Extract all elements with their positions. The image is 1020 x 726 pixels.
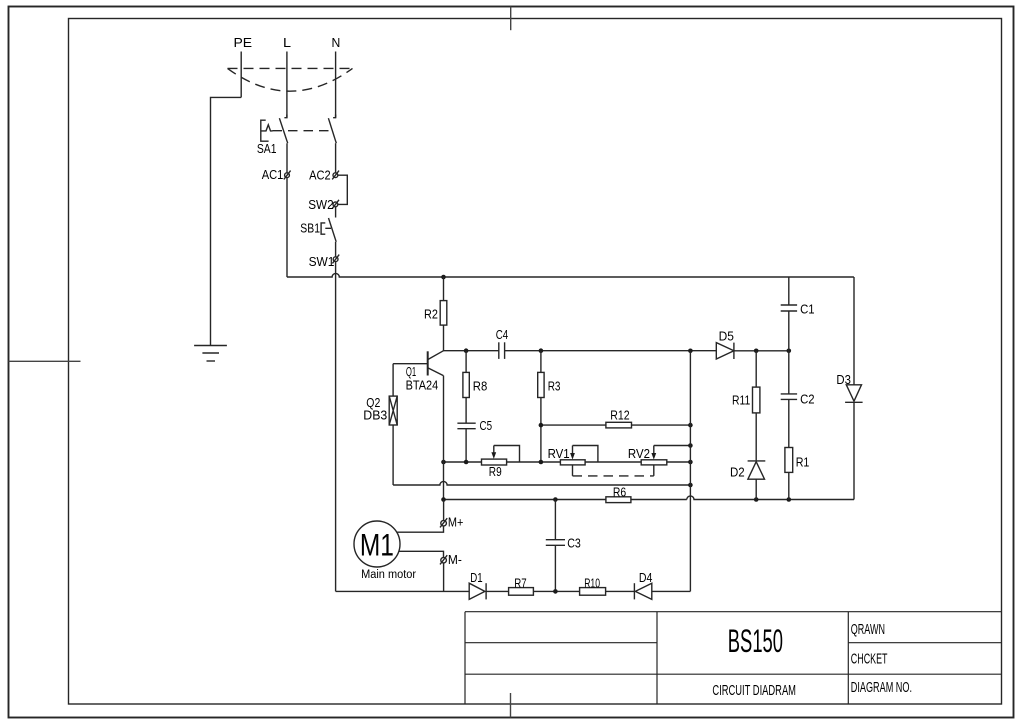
svg-text:SW1: SW1 [309, 254, 335, 269]
svg-text:R2: R2 [424, 307, 438, 322]
svg-text:BS150: BS150 [728, 623, 783, 659]
diode D4 [634, 570, 690, 600]
svg-text:M+: M+ [448, 515, 464, 530]
transistor Q1 [393, 351, 443, 393]
wire SB1 to SW1 [335, 242, 337, 257]
wire R6 row right with hop [687, 496, 854, 500]
svg-text:SW2: SW2 [308, 197, 333, 212]
node rail-R2 [441, 275, 446, 280]
wire motor minus lead [399, 551, 444, 557]
node C3 bottom [553, 589, 558, 594]
svg-text:R6: R6 [613, 484, 626, 499]
svg-text:N: N [332, 35, 341, 50]
svg-text:R9: R9 [489, 464, 502, 479]
svg-text:SA1: SA1 [257, 141, 277, 156]
terminal PE [234, 35, 253, 98]
svg-text:M1: M1 [360, 527, 394, 562]
svg-text:SB1: SB1 [300, 221, 320, 236]
svg-text:PE: PE [234, 35, 253, 50]
resistor R7 [509, 575, 580, 595]
svg-text:AC1: AC1 [262, 167, 284, 182]
motor M1 [354, 521, 416, 581]
wire M- to bottom row [443, 563, 445, 591]
node R12 right [688, 423, 693, 428]
node R12 left [539, 423, 544, 428]
svg-text:R7: R7 [514, 575, 526, 590]
capacitor C1 [781, 277, 815, 351]
node C5 bottom [464, 460, 469, 465]
svg-text:D2: D2 [730, 464, 745, 479]
wire R9 row [444, 461, 691, 463]
capacitor C5 [457, 418, 492, 462]
wire PE to ground [211, 97, 242, 345]
wire motor plus lead [397, 526, 444, 532]
node R6 row left [441, 497, 446, 502]
terminal SW1 [309, 254, 340, 269]
node R8 top [464, 348, 469, 353]
potentiometer R9 [482, 446, 520, 480]
wire node A left segment [444, 350, 499, 352]
wire center vertical net [689, 351, 691, 592]
svg-text:CHCKET: CHCKET [851, 651, 888, 667]
svg-text:DB3: DB3 [363, 408, 387, 423]
diode D1 [469, 570, 508, 600]
svg-text:QRAWN: QRAWN [851, 622, 885, 638]
svg-text:R12: R12 [610, 407, 629, 422]
diode D3 [836, 372, 862, 402]
terminal M+ [440, 500, 463, 530]
node R1 bottom [787, 497, 792, 502]
svg-text:C5: C5 [480, 418, 493, 433]
wire node A middle segment [505, 350, 717, 352]
capacitor C3 [546, 500, 581, 592]
svg-text:R11: R11 [732, 393, 750, 408]
capacitor C2 [781, 351, 815, 448]
resistor R6 [606, 484, 687, 502]
terminal SW2 [308, 197, 339, 212]
diode D5 [716, 328, 734, 359]
svg-text:C1: C1 [800, 301, 815, 316]
wire AC2 to SW2 jog [338, 175, 348, 204]
wire N column upper [335, 143, 337, 173]
resistor R12 [541, 407, 691, 428]
resistor R10 [580, 575, 635, 595]
switch SA1 [257, 115, 336, 157]
wire N column down to bottom row [335, 262, 337, 592]
dashed gang coupling RV1-RV2 [573, 465, 654, 476]
svg-text:C2: C2 [800, 392, 815, 407]
svg-text:R8: R8 [473, 379, 488, 394]
potentiometer RV1 [548, 446, 598, 465]
potentiometer RV2 [628, 446, 691, 465]
svg-text:D5: D5 [719, 328, 734, 343]
terminal L [283, 35, 291, 118]
resistor R8 [463, 351, 487, 423]
terminal M- [440, 552, 462, 567]
wire R6 row left [444, 499, 606, 501]
wire right vertical top [853, 277, 855, 385]
svg-text:RV2: RV2 [628, 446, 650, 461]
node R3 bottom [539, 460, 544, 465]
terminal N [332, 35, 341, 118]
node C1-C2 [787, 349, 792, 354]
diac Q2 DB3 [363, 364, 397, 485]
svg-text:DIAGRAM NO.: DIAGRAM NO. [851, 680, 912, 696]
svg-text:Main motor: Main motor [361, 569, 416, 581]
capacitor C4 [496, 327, 509, 359]
node D5 anode [688, 349, 693, 354]
terminal AC2 [309, 168, 339, 183]
wire top rail with hop [287, 273, 854, 277]
title block [465, 612, 1002, 704]
svg-text:D3: D3 [836, 372, 851, 387]
resistor R3 [538, 351, 561, 462]
svg-text:L: L [283, 35, 291, 50]
diode D2 [730, 461, 765, 500]
pushbutton SB1 [300, 207, 336, 242]
node R9 row left [441, 460, 446, 465]
svg-text:AC2: AC2 [309, 168, 331, 183]
svg-text:BTA24: BTA24 [406, 377, 439, 392]
wire L column [286, 143, 288, 277]
node RV2 right [688, 460, 693, 465]
svg-text:D4: D4 [639, 570, 653, 585]
wire Q2 bottom row with hop [393, 481, 690, 485]
svg-text:C3: C3 [567, 536, 581, 551]
svg-text:R10: R10 [584, 575, 600, 590]
terminal AC1 [262, 167, 291, 182]
svg-text:CIRCUIT DIADRAM: CIRCUIT DIADRAM [712, 682, 796, 699]
ground [194, 346, 227, 362]
wire emitter column [443, 376, 445, 500]
resistor R1 [785, 448, 810, 500]
svg-text:D1: D1 [470, 570, 482, 585]
svg-text:RV1: RV1 [548, 446, 570, 461]
node R3 top [539, 348, 544, 353]
resistor R2 [424, 277, 447, 351]
wire node A right segment [734, 350, 789, 352]
node Q2 row end [688, 483, 693, 488]
svg-text:M-: M- [448, 552, 462, 567]
svg-text:R1: R1 [796, 455, 810, 470]
wire bottom row left [336, 590, 470, 592]
resistor R11 [732, 351, 760, 461]
wire right vertical bottom [853, 402, 855, 499]
svg-text:C4: C4 [496, 327, 509, 342]
node C3 top [553, 497, 558, 502]
node D2 bottom [754, 497, 759, 502]
svg-text:R3: R3 [548, 379, 561, 394]
node R11 top [754, 349, 759, 354]
node RV2 wiper [688, 443, 693, 448]
connector boundary dashed lens [228, 68, 353, 91]
